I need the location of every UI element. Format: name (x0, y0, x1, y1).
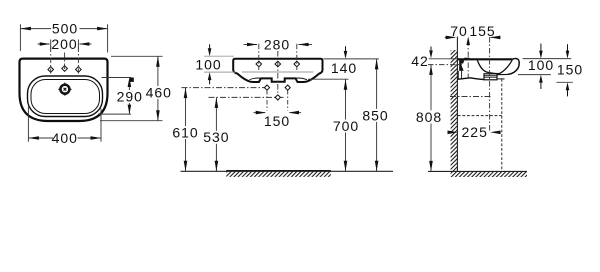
tap hole centre (62, 66, 68, 72)
ext line 140 top / 850 top (324, 58, 379, 60)
tap hole slot (464, 58, 469, 61)
arrow 200 right (79, 42, 90, 46)
arrow 70 left (446, 36, 457, 40)
arrow 700 bottom (344, 161, 348, 172)
dim line 280 right tail (299, 44, 313, 46)
arrow 150 right top (566, 51, 570, 59)
dim line 610 (185, 88, 187, 126)
arrow 100 right bottom (539, 75, 543, 83)
dim line 808 (430, 65, 432, 110)
left view dimension work (20, 24, 162, 142)
drain axis (489, 37, 491, 131)
centreline tap left (50, 47, 52, 74)
svg-text:290: 290 (117, 89, 143, 105)
centreline hole right (296, 44, 298, 70)
middle view arrows (184, 43, 379, 172)
svg-text:225: 225 (462, 124, 488, 140)
right floor hatch (451, 171, 527, 177)
svg-text:100: 100 (528, 57, 554, 73)
arrow 225 left (448, 131, 459, 135)
centreline tap right (77, 47, 79, 74)
arrow 150 left (256, 111, 267, 115)
arrow 460 top (156, 56, 160, 67)
arrow 610 bottom (184, 161, 188, 172)
dim line 150 left tail (254, 112, 266, 114)
svg-text:850: 850 (362, 107, 388, 123)
drain rosette (58, 82, 72, 96)
svg-text:150: 150 (264, 113, 290, 129)
foot arc right (295, 78, 308, 80)
arrow 42 bottom / 808 top (429, 65, 433, 75)
tap hole right (76, 67, 82, 73)
arrow 200 left (40, 42, 51, 46)
arrow 808 bottom (429, 161, 433, 172)
arrow 500 left (20, 27, 31, 31)
basin underside (457, 78, 483, 80)
middle view texts (172, 36, 388, 145)
pedestal hidden vertical (501, 79, 503, 171)
ext line 290 bottom (98, 113, 131, 115)
arrow 530 bottom (215, 161, 219, 172)
ext line right of 500 (107, 24, 109, 52)
trap to horn line (497, 73, 508, 75)
underside ext right (557, 81, 573, 83)
svg-text:155: 155 (469, 23, 495, 39)
arrow 530 top (215, 97, 219, 108)
arrow 42 top (429, 50, 433, 58)
dim line 530 (215, 97, 217, 130)
foot arc left (250, 78, 263, 80)
drain point (275, 95, 280, 100)
arrow 280 right (298, 43, 309, 47)
dim line 200 left tail (38, 43, 50, 45)
front rim horn (508, 59, 519, 75)
fixing point left (264, 85, 269, 90)
fixing hole right (294, 61, 300, 67)
right view texts (411, 23, 583, 140)
rim top ext left of wall (429, 58, 458, 60)
svg-text:700: 700 (333, 118, 359, 134)
svg-text:500: 500 (52, 21, 78, 37)
arrow 150 right (289, 111, 300, 115)
bracket lower edge (458, 71, 461, 79)
arrow 155 right (490, 36, 501, 40)
tap height axis (428, 64, 462, 66)
arrow 290 bottom (128, 105, 132, 115)
svg-text:280: 280 (264, 36, 290, 52)
ext line 100 top (204, 55, 234, 57)
arrow 850 top (375, 59, 379, 70)
ext line 400 right (100, 109, 102, 142)
svg-text:530: 530 (203, 129, 229, 145)
svg-text:140: 140 (331, 60, 357, 76)
arrow 100 right top (539, 51, 543, 59)
svg-text:70: 70 (450, 23, 468, 39)
middle floor hatch (226, 171, 330, 177)
ext tick 200 right (77, 40, 79, 50)
dim line 200 right tail (80, 43, 92, 45)
right view arrows (429, 36, 569, 172)
left view arrows (20, 27, 159, 140)
basin front profile (233, 59, 322, 82)
siphon axis (450, 96, 491, 98)
wall face line (456, 37, 458, 172)
ext line 460 top (111, 55, 163, 57)
svg-text:610: 610 (172, 124, 198, 140)
overflow marker (130, 78, 134, 82)
apron inner line (242, 71, 314, 73)
dimension line 500 (20, 28, 51, 30)
tap hole left (48, 67, 54, 73)
svg-text:200: 200 (51, 36, 77, 52)
drain trap (484, 74, 497, 80)
arrow 400 left (28, 136, 39, 140)
bowl bottom ext right (518, 74, 551, 76)
ext line 460 bottom (100, 120, 163, 122)
arrow 100 bottom (208, 72, 212, 80)
bowl inner profile (477, 60, 512, 74)
arrow 225 right (490, 131, 501, 135)
arrow 400 right (91, 136, 102, 140)
right floor line (428, 170, 527, 172)
arrow 280 left (247, 43, 258, 47)
arrow 150 right bottom (566, 82, 570, 90)
basin plan outline (20, 59, 108, 121)
axis line 610 (182, 87, 269, 89)
middle view small point marks (264, 85, 290, 100)
fixing hole centre (275, 61, 281, 67)
pedestal hidden horizontal (458, 115, 502, 117)
svg-text:460: 460 (146, 84, 172, 100)
svg-text:42: 42 (411, 53, 429, 69)
svg-text:400: 400 (52, 130, 78, 146)
arrow 850 bottom (375, 161, 379, 172)
ext line 290 top (102, 77, 132, 79)
dim line 155 tail (491, 36, 501, 38)
centreline hole left (258, 44, 260, 70)
wall hatch (451, 50, 458, 171)
dim line 280 left tail (244, 44, 258, 46)
arrow 70 right (up) (466, 37, 470, 46)
dim line 290 (128, 86, 130, 90)
basin side deck (457, 58, 512, 60)
arrow 700 top (344, 79, 348, 90)
fixing point centreline right (287, 90, 289, 111)
arrow 290 top (128, 78, 132, 88)
arrow 140 top (344, 51, 348, 59)
svg-text:150: 150 (557, 62, 583, 78)
dim line 70 tail (445, 36, 455, 38)
fixing point right (285, 85, 290, 90)
dim line 460 (157, 56, 159, 86)
ext line 400 left (27, 107, 29, 142)
wall bracket (459, 60, 464, 71)
svg-text:100: 100 (195, 56, 221, 72)
dim line 400 (28, 137, 53, 139)
axis line 530 (209, 96, 284, 98)
dim line 150 right tail (290, 112, 301, 114)
arrow 610 top (184, 88, 188, 99)
rim top ext right (523, 58, 572, 60)
dim line 850 (376, 59, 378, 109)
arrow 460 bottom (156, 110, 160, 121)
ext tick 200 left (50, 40, 52, 50)
bowl inner rim (31, 80, 100, 114)
tap axis (467, 41, 469, 81)
trap lower line (497, 78, 505, 80)
fixing hole left (256, 61, 262, 67)
middle floor line (181, 170, 394, 172)
ext line left of 500 (19, 24, 21, 51)
centreline drain vertical (277, 51, 279, 101)
centreline tap centre (64, 53, 66, 73)
middle floor hatch top line (226, 170, 330, 172)
arrow 100 top (208, 48, 212, 56)
dim line 700 (345, 79, 347, 119)
ext line 140 bottom / 700 top (308, 78, 349, 80)
ext line 100 bottom (204, 71, 236, 73)
svg-text:808: 808 (416, 109, 442, 125)
left view texts (51, 21, 172, 146)
arrow 500 right (97, 27, 108, 31)
fixing point centreline left (266, 90, 268, 111)
bowl outer rim (28, 76, 103, 117)
